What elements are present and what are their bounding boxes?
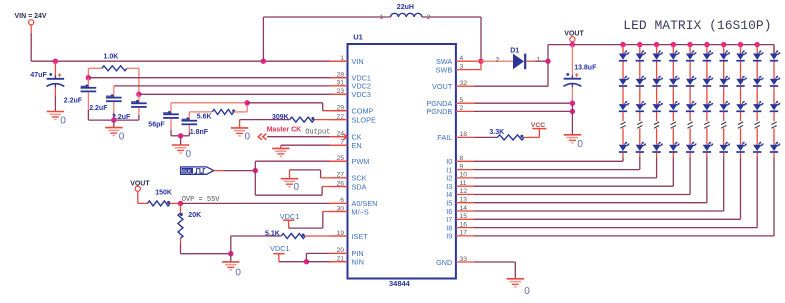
LED D10a column 10 row 1 xyxy=(770,50,781,60)
node A0/SEN junction xyxy=(178,201,183,206)
node SW junction (SWA/SWB/diode) xyxy=(478,59,483,70)
svg-text:CLK: CLK xyxy=(182,169,192,174)
wire continuation break marks column 8 xyxy=(738,122,743,128)
IC U1 pin 24 (CK) xyxy=(330,131,362,142)
svg-text:32: 32 xyxy=(460,80,468,87)
node junction VIN/47uF xyxy=(53,59,58,64)
svg-text:9: 9 xyxy=(460,163,464,170)
wire continuation break marks column 9 xyxy=(755,122,760,128)
LED D2a column 2 row 1 xyxy=(636,50,647,60)
svg-text:31: 31 xyxy=(336,80,344,87)
svg-text:25: 25 xyxy=(336,155,344,162)
node VIN=24V input terminal xyxy=(15,13,47,25)
LED column 3 string xyxy=(654,42,659,178)
svg-text:7: 7 xyxy=(340,139,344,146)
power symbol VCC xyxy=(531,122,547,137)
LED column 5 string xyxy=(687,42,692,195)
LED D4b column 4 row 2 xyxy=(669,76,680,86)
resistor R3 309K xyxy=(240,114,348,128)
svg-text:5.6K: 5.6K xyxy=(197,114,212,121)
LED D3d column 3 row 4 xyxy=(652,142,663,152)
svg-text:PWM: PWM xyxy=(352,157,370,166)
LED D4a column 4 row 1 xyxy=(669,50,680,60)
LED D1d column 1 row 4 xyxy=(619,142,630,152)
wire I3 net from pin to column 4 xyxy=(474,185,673,187)
svg-text:10: 10 xyxy=(460,172,468,179)
resistor R6 5.1K xyxy=(231,230,348,253)
LED D3b column 3 row 2 xyxy=(652,76,663,86)
svg-text:5: 5 xyxy=(460,97,464,104)
svg-text:3.3K: 3.3K xyxy=(489,129,504,136)
svg-text:18: 18 xyxy=(460,131,468,138)
capacitor C6 1.8nF xyxy=(181,112,209,136)
IC U1 pin 28 (VDC1) xyxy=(330,72,371,83)
svg-text:SLOPE: SLOPE xyxy=(352,115,376,124)
wire I5 net from pin to column 6 xyxy=(474,202,707,204)
svg-text:8: 8 xyxy=(460,155,464,162)
LED column 4 string xyxy=(671,42,676,186)
wire GND net to ground xyxy=(474,262,515,279)
IC U1 pin 30 (M/−S) xyxy=(330,205,369,216)
svg-text:1: 1 xyxy=(537,57,541,64)
wire I0 net from pin to column 1 xyxy=(474,160,623,162)
node 56pF/1.8nF ground junction xyxy=(178,133,183,145)
capacitor C5 56pF xyxy=(148,103,180,136)
svg-text:24: 24 xyxy=(336,131,344,138)
LED column 7 string xyxy=(721,42,726,211)
svg-text:309K: 309K xyxy=(272,114,289,121)
svg-text:0: 0 xyxy=(294,182,300,193)
IC U1 pin 29 (COMP) xyxy=(330,105,374,116)
LED D9c column 9 row 3 xyxy=(753,101,764,111)
LED column 6 string xyxy=(704,42,709,203)
svg-text:6: 6 xyxy=(340,197,344,204)
svg-text:23: 23 xyxy=(336,88,344,95)
IC U1 pin 17 (I9) xyxy=(446,230,474,241)
wire COMP net to pin 29 xyxy=(247,103,347,111)
LED D8d column 8 row 4 xyxy=(736,142,747,152)
wire continuation break marks column 7 xyxy=(721,122,726,128)
capacitor C2 2.2uF (VDC1) xyxy=(64,78,96,120)
svg-text:2: 2 xyxy=(460,105,464,112)
resistor R2 5.6K xyxy=(189,103,247,121)
svg-text:VCC: VCC xyxy=(531,122,545,129)
IC U1 pin 7 (EN) xyxy=(330,139,362,150)
LED D6b column 6 row 2 xyxy=(703,76,714,86)
IC U1 pin 20 (PIN) xyxy=(330,247,364,258)
IC U1 pin 25 (PWM) xyxy=(330,155,370,166)
IC U1 pin 6 (A0/SEN) xyxy=(330,197,378,208)
IC U1 pin 11 (I3) xyxy=(446,180,474,191)
wire PIN net to pin 20 xyxy=(306,253,347,261)
svg-text:0: 0 xyxy=(245,132,251,143)
svg-text:0: 0 xyxy=(186,149,192,160)
LED D7c column 7 row 3 xyxy=(720,101,731,111)
svg-text:SWB: SWB xyxy=(436,65,453,74)
IC U1 pin 12 (I4) xyxy=(446,188,474,199)
svg-text:15: 15 xyxy=(460,213,468,220)
svg-text:PGNDB: PGNDB xyxy=(426,107,452,116)
ground 13.8uF/PGND xyxy=(564,135,584,150)
wire PGNDA net xyxy=(474,101,575,106)
wire VDC3 net to pin 23 xyxy=(139,93,348,95)
svg-text:0: 0 xyxy=(577,139,583,150)
IC U1 pin 3 (SWB) xyxy=(436,63,474,74)
svg-text:I9: I9 xyxy=(446,232,452,241)
IC U1 pin 9 (I1) xyxy=(446,163,474,174)
svg-text:VDC3: VDC3 xyxy=(352,90,371,99)
svg-text:0: 0 xyxy=(60,115,66,126)
wire I8 net from pin to column 9 xyxy=(474,227,757,229)
wire continuation break marks column 10 xyxy=(771,122,776,128)
wire COMP net 56pF top xyxy=(171,102,247,104)
svg-text:22: 22 xyxy=(336,113,344,120)
svg-text:33: 33 xyxy=(460,256,468,263)
svg-text:21: 21 xyxy=(336,256,344,263)
capacitor C4 2.2uF (VDC3) xyxy=(112,94,147,121)
LED D5c column 5 row 3 xyxy=(686,101,697,111)
capacitor C7 13.8uF xyxy=(564,45,598,104)
LED column 2 string xyxy=(637,42,642,170)
wire A0/SEN net to pin 6 with OVP label xyxy=(181,196,348,204)
svg-text:M/−S: M/−S xyxy=(352,207,369,216)
svg-text:ISET: ISET xyxy=(352,232,369,241)
wire cap commons to ground xyxy=(88,119,138,121)
svg-text:Master CK: Master CK xyxy=(267,127,302,134)
svg-text:2.2uF: 2.2uF xyxy=(64,97,83,104)
svg-text:0: 0 xyxy=(119,131,125,142)
svg-text:16: 16 xyxy=(460,221,468,228)
LED column 8 string xyxy=(738,42,743,219)
wire EN net to pin 7 xyxy=(281,145,348,148)
svg-text:0: 0 xyxy=(524,286,530,297)
LED D8b column 8 row 2 xyxy=(736,76,747,86)
svg-text:VOUT: VOUT xyxy=(130,181,150,188)
svg-text:VOUT: VOUT xyxy=(432,82,453,91)
LED D1a column 1 row 1 xyxy=(619,50,630,60)
wire inductor to SW node xyxy=(422,17,481,61)
power symbol VDC1 (M/~S) xyxy=(280,212,348,229)
svg-text:27: 27 xyxy=(336,172,344,179)
wire SDA net to pin 26 xyxy=(255,171,347,196)
wire SCK net to pin 27 xyxy=(290,170,348,179)
wire PGNDB net xyxy=(474,103,575,134)
capacitor C1 47uF xyxy=(30,61,64,87)
svg-text:4: 4 xyxy=(460,55,464,62)
ground 47uF xyxy=(47,112,67,127)
wire CK net to pin 24 xyxy=(267,134,347,140)
LED D6a column 6 row 1 xyxy=(703,50,714,60)
LED matrix title xyxy=(623,18,771,33)
LED D5d column 5 row 4 xyxy=(686,142,697,152)
ground VDC caps xyxy=(105,128,125,143)
node VOUT sense terminal xyxy=(130,181,150,192)
LED D9d column 9 row 4 xyxy=(753,142,764,152)
wire diode cathode to VOUT node xyxy=(526,60,548,62)
LED D10c column 10 row 3 xyxy=(770,101,781,111)
IC U1 pin 5 (PGNDA) xyxy=(426,97,474,108)
svg-text:22uH: 22uH xyxy=(397,4,414,11)
wire SWA/SWB to diode anode xyxy=(474,57,513,70)
ground 20K/5.1K xyxy=(222,262,241,278)
IC U1 pin 21 (NIN) xyxy=(330,256,365,267)
svg-text:VOUT: VOUT xyxy=(564,31,584,38)
LED D1c column 1 row 3 xyxy=(619,101,630,111)
LED D7a column 7 row 1 xyxy=(720,50,731,60)
LED D6d column 6 row 4 xyxy=(703,142,714,152)
resistor R5 20K xyxy=(178,203,231,253)
svg-text:Output: Output xyxy=(305,129,330,137)
LED D7d column 7 row 4 xyxy=(720,142,731,152)
IC U1 pin 23 (VDC3) xyxy=(330,88,371,99)
svg-text:SDA: SDA xyxy=(352,182,367,191)
svg-text:28: 28 xyxy=(336,72,344,79)
wire I7 net from pin to column 8 xyxy=(474,218,741,220)
svg-text:20: 20 xyxy=(336,247,344,254)
LED D2d column 2 row 4 xyxy=(636,142,647,152)
node cap ground junction xyxy=(111,117,116,127)
LED column 10 string xyxy=(773,45,775,236)
IC U1 pin 13 (I5) xyxy=(446,197,474,208)
LED D10b column 10 row 2 xyxy=(770,76,781,86)
svg-text:150K: 150K xyxy=(155,190,172,197)
LED D6c column 6 row 3 xyxy=(703,101,714,111)
svg-text:30: 30 xyxy=(336,205,344,212)
IC U1 pin 32 (VOUT) xyxy=(432,80,474,91)
svg-text:3: 3 xyxy=(460,63,464,70)
svg-text:1: 1 xyxy=(380,14,384,21)
svg-text:13: 13 xyxy=(460,197,468,204)
clock source CLK symbol xyxy=(181,167,214,174)
svg-text:5.1K: 5.1K xyxy=(265,230,280,237)
wire VDC1 net to pin 28 xyxy=(88,77,347,79)
svg-text:17: 17 xyxy=(460,230,468,237)
IC U1 pin 14 (I6) xyxy=(446,205,474,216)
ground SCK xyxy=(281,179,300,193)
node VOUT output terminal xyxy=(564,31,584,48)
svg-text:29: 29 xyxy=(336,105,344,112)
IC U1 pin 8 (I0) xyxy=(446,155,474,166)
svg-text:11: 11 xyxy=(460,180,467,187)
wire I4 net from pin to column 5 xyxy=(474,194,690,196)
node VDC1 junction xyxy=(86,75,91,80)
svg-text:2: 2 xyxy=(496,57,500,64)
node 20K/5.1K/ground junction xyxy=(228,251,233,262)
IC U1 pin 33 (GND) xyxy=(436,256,474,267)
LED D3c column 3 row 3 xyxy=(652,101,663,111)
svg-text:1.0K: 1.0K xyxy=(104,53,119,60)
port Master CK input chevrons xyxy=(258,127,330,140)
wire continuation break marks column 3 xyxy=(654,122,659,128)
wire continuation break marks column 5 xyxy=(688,122,693,128)
IC U1 pin 27 (SCK) xyxy=(330,172,367,183)
LED D2c column 2 row 3 xyxy=(636,101,647,111)
resistor R7 3.3K xyxy=(474,129,539,140)
svg-text:13.8uF: 13.8uF xyxy=(574,64,597,71)
IC U1 pin 4 (SWA) xyxy=(436,55,474,66)
resistor R4 150K xyxy=(138,190,181,206)
svg-text:1: 1 xyxy=(340,55,344,62)
node PWM/SDA fanout junction xyxy=(253,168,258,173)
diode D1 xyxy=(510,48,540,70)
node VDC3 junction xyxy=(136,92,141,97)
LED D10d column 10 row 4 xyxy=(770,142,781,152)
node COMP junction xyxy=(245,100,250,105)
LED column 1 string xyxy=(620,42,625,161)
svg-text:2: 2 xyxy=(427,14,431,21)
wire VOUT rail to LED matrix xyxy=(548,44,774,46)
IC U1 pin 15 (I7) xyxy=(446,213,474,224)
LED column 9 string xyxy=(755,42,760,228)
node PIN/NIN junction xyxy=(304,259,309,264)
LED D4d column 4 row 4 xyxy=(669,142,680,152)
inductor L 22uH xyxy=(380,4,431,21)
svg-text:EN: EN xyxy=(352,141,362,150)
svg-text:GND: GND xyxy=(436,258,452,267)
svg-text:OVP = 55V: OVP = 55V xyxy=(182,196,221,204)
wire CLK output to PWM fanout xyxy=(214,170,256,172)
node diode cathode junction xyxy=(545,59,550,64)
LED D8a column 8 row 1 xyxy=(736,50,747,60)
svg-text:56pF: 56pF xyxy=(148,121,165,128)
svg-text:1.8nF: 1.8nF xyxy=(190,129,209,136)
wire VIN net: terminal down and across to pin 1 xyxy=(31,25,347,61)
IC U1 pin 16 (I8) xyxy=(446,221,474,232)
LED D3a column 3 row 1 xyxy=(652,50,663,60)
IC U1 pin 1 (VIN) xyxy=(330,55,364,66)
wire continuation break marks column 6 xyxy=(704,122,709,128)
wire 47uF to ground xyxy=(54,87,56,111)
ground EN xyxy=(272,148,289,156)
IC U1 pin 10 (I2) xyxy=(446,172,474,183)
wire continuation break marks column 4 xyxy=(671,122,676,128)
svg-text:14: 14 xyxy=(460,205,468,212)
LED D4c column 4 row 3 xyxy=(669,101,680,111)
svg-text:47uF: 47uF xyxy=(30,72,47,79)
wire I6 net from pin to column 7 xyxy=(474,210,724,212)
wire PWM net to pin 25 xyxy=(255,161,347,170)
svg-text:COMP: COMP xyxy=(352,107,374,116)
ground COMP caps xyxy=(172,145,192,160)
wire VIN riser to inductor xyxy=(261,17,391,64)
LED D2b column 2 row 2 xyxy=(636,76,647,86)
wire rail right corner xyxy=(773,45,775,54)
svg-text:26: 26 xyxy=(336,180,344,187)
svg-text:12: 12 xyxy=(460,188,468,195)
IC U1 pin 19 (ISET) xyxy=(330,230,369,241)
IC U1 pin 26 (SDA) xyxy=(330,180,367,191)
IC U1 pin 31 (VDC2) xyxy=(330,80,371,91)
ground IC GND xyxy=(507,279,531,297)
LED D5a column 5 row 1 xyxy=(686,50,697,60)
svg-text:U1: U1 xyxy=(353,32,363,41)
wire I2 net from pin to column 3 xyxy=(474,177,657,179)
capacitor C3 2.2uF (VDC2) xyxy=(89,86,121,120)
svg-text:D1: D1 xyxy=(510,48,519,55)
resistor R1 1.0K xyxy=(88,53,138,94)
svg-text:VIN: VIN xyxy=(352,57,364,66)
op-amp/IC U1 34844 body xyxy=(348,32,456,288)
LED D9b column 9 row 2 xyxy=(753,76,764,86)
wire continuation break marks column 2 xyxy=(637,122,642,128)
LED D1b column 1 row 2 xyxy=(619,76,630,86)
svg-text:FAIL: FAIL xyxy=(437,133,452,142)
wire I9 net from pin to column 10 xyxy=(474,235,774,237)
LED D5b column 5 row 2 xyxy=(686,76,697,86)
LED D9a column 9 row 1 xyxy=(753,50,764,60)
wire VOUT pin 32 riser xyxy=(474,45,548,87)
IC U1 pin 18 (FAIL) xyxy=(437,131,474,142)
svg-text:NIN: NIN xyxy=(352,258,365,267)
svg-text:LED MATRIX (16S10P): LED MATRIX (16S10P) xyxy=(623,18,771,33)
svg-text:34844: 34844 xyxy=(389,279,411,288)
svg-text:20K: 20K xyxy=(188,212,201,219)
wire continuation break marks column 1 xyxy=(620,122,625,128)
IC U1 pin 2 (PGNDB) xyxy=(426,105,474,116)
svg-text:2.2uF: 2.2uF xyxy=(89,105,108,112)
ground 309K xyxy=(231,128,251,143)
svg-text:19: 19 xyxy=(336,230,344,237)
wire VDC2 net to pin 31 xyxy=(114,85,348,87)
wire I1 net from pin to column 2 xyxy=(474,169,640,171)
wire NIN net to pin 21 xyxy=(306,261,347,263)
LED D8c column 8 row 3 xyxy=(736,101,747,111)
svg-text:VDC1: VDC1 xyxy=(270,244,289,253)
svg-text:0: 0 xyxy=(235,267,241,278)
IC U1 pin 22 (SLOPE) xyxy=(330,113,376,124)
LED D7b column 7 row 2 xyxy=(720,76,731,86)
power symbol VDC1 (PIN/NIN) xyxy=(270,244,306,262)
